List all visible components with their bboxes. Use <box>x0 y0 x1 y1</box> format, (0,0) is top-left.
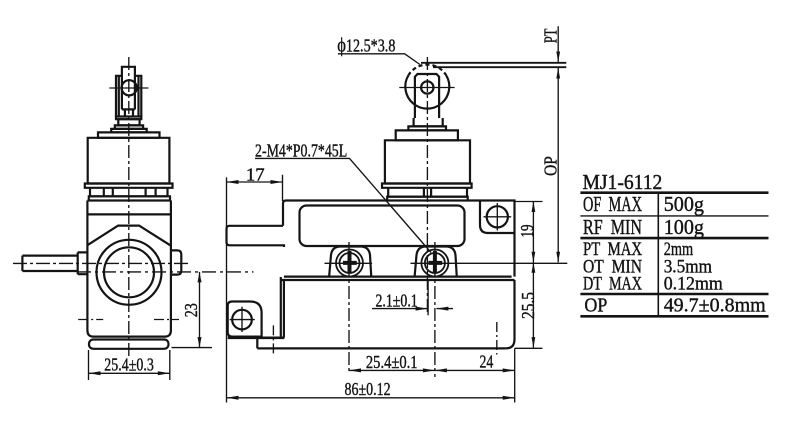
dim 25.5 bottom ext <box>515 347 543 349</box>
plunger center solid segment <box>427 280 429 315</box>
plunger cap <box>98 132 160 137</box>
base left edges <box>281 277 284 338</box>
dim 25.4 extension lines <box>89 350 170 380</box>
arrow 17 right <box>271 180 283 184</box>
roller circle dashed top <box>408 65 446 76</box>
arrow 25.4 left <box>349 368 361 372</box>
plunger step 3 <box>111 129 147 133</box>
boot flange <box>85 184 173 188</box>
screw right cross <box>428 251 442 273</box>
svg-text:2.1±0.1: 2.1±0.1 <box>376 291 418 311</box>
right boss <box>171 250 181 274</box>
screw right outer <box>421 250 448 277</box>
arrow 25.4 right <box>158 371 170 375</box>
pentagon face <box>88 226 170 246</box>
wire center line vertical middle view <box>426 57 428 315</box>
base plate under collar <box>89 196 170 200</box>
arrow PT up <box>556 68 560 79</box>
base top edge <box>281 279 515 281</box>
bottom insert <box>89 340 169 349</box>
circle horizontal center line <box>77 271 254 273</box>
screw housing right <box>415 247 457 276</box>
middle view dimensions <box>227 26 559 402</box>
arrow 25.4 left <box>89 371 101 375</box>
dim 19/25.5 line <box>532 202 534 348</box>
table line under OF <box>580 215 768 217</box>
base bottom right corner <box>506 280 515 348</box>
dim 25.4/24 line <box>349 369 515 371</box>
svg-text:2-M4*P0.7*45L: 2-M4*P0.7*45L <box>255 141 347 161</box>
pin circle <box>122 80 137 95</box>
base center marks <box>273 322 496 355</box>
terminal rod <box>22 256 77 271</box>
svg-text:OP: OP <box>584 294 607 316</box>
screw left inner <box>340 253 360 273</box>
plunger cap <box>396 130 458 140</box>
boot flange <box>382 184 472 188</box>
table line under DT <box>580 293 768 296</box>
dim 17 line <box>227 181 283 183</box>
label plate <box>300 206 465 247</box>
link below roller <box>125 109 133 116</box>
arrow 86 right <box>503 396 515 400</box>
ref line top 1 <box>421 62 566 64</box>
table line under RF <box>580 237 768 240</box>
svg-text:RF MIN: RF MIN <box>583 215 642 239</box>
switch body outline <box>87 201 170 337</box>
wire center line vertical left view <box>128 57 130 356</box>
svg-text:OF MAX: OF MAX <box>583 192 642 216</box>
dim 25.4 line <box>89 372 170 374</box>
svg-text:23: 23 <box>181 303 201 317</box>
arrow 25.5 down <box>532 337 536 348</box>
pin cross line <box>399 87 454 89</box>
svg-text:25.5: 25.5 <box>518 292 538 319</box>
base bottom step <box>257 339 505 348</box>
svg-text:25.4±0.1: 25.4±0.1 <box>366 352 418 372</box>
screw left cross <box>343 251 357 273</box>
plate under collar <box>387 197 468 201</box>
left lug <box>228 302 262 337</box>
lug hole cross <box>230 307 255 332</box>
arrow 24 left <box>435 368 447 372</box>
mounting hole cross <box>484 203 512 231</box>
arrow 86 left <box>227 396 239 400</box>
screw left outer <box>336 250 363 277</box>
svg-text:49.7±0.8mm: 49.7±0.8mm <box>664 294 766 316</box>
dim 19 ext <box>515 201 543 203</box>
svg-text:ϕ12.5*3.8: ϕ12.5*3.8 <box>337 35 395 57</box>
outer circle <box>97 240 162 305</box>
arrow 25.4 right <box>423 368 435 372</box>
roller circle solid part <box>405 76 449 109</box>
lug bottom thick line <box>228 336 285 339</box>
dim 23 extension bottom <box>172 347 213 349</box>
dim 23 line <box>199 272 201 348</box>
body bottom edge line <box>284 276 512 278</box>
screw housing left <box>329 247 371 276</box>
svg-text:17: 17 <box>246 165 265 185</box>
dim PT line <box>557 26 559 262</box>
arrow 25.5 up <box>532 262 536 273</box>
dim 24 right ext <box>514 349 516 403</box>
pin center line <box>109 87 148 89</box>
arrow 17 left <box>227 180 239 184</box>
mounting hole top right <box>487 206 508 227</box>
svg-text:PT: PT <box>541 28 561 43</box>
fork base band <box>116 117 141 120</box>
svg-text:100g: 100g <box>664 215 705 239</box>
table top line <box>580 191 768 194</box>
body top and right <box>283 201 515 277</box>
arrow 23 up <box>198 272 202 283</box>
plunger step 1 <box>118 119 139 125</box>
svg-text:OP: OP <box>540 156 560 176</box>
plunger step 2 <box>115 125 143 128</box>
leader M4 underline <box>255 158 431 252</box>
screw right inner <box>425 253 445 273</box>
pin circle <box>421 81 433 93</box>
svg-text:19: 19 <box>517 224 537 237</box>
body top band line <box>87 213 170 215</box>
dim 86 line <box>227 397 515 399</box>
left strip <box>227 226 285 247</box>
svg-text:86±0.12: 86±0.12 <box>345 379 391 399</box>
left boss <box>78 252 88 274</box>
table bottom line <box>580 315 768 318</box>
rod center line <box>13 262 188 264</box>
lug hole <box>232 310 252 330</box>
arrow 19 up <box>532 202 536 213</box>
clevis <box>415 74 439 118</box>
top-right lug boundary <box>480 201 515 234</box>
boot <box>385 140 470 183</box>
screw center lines <box>349 242 435 377</box>
terminal collar <box>90 188 168 197</box>
svg-text:24: 24 <box>480 352 494 372</box>
ref line top 2 <box>433 66 566 68</box>
inner circle <box>104 247 154 297</box>
screw horizontal center lines <box>325 262 568 264</box>
roller (side view) <box>122 67 135 110</box>
plunger step 2 <box>408 126 446 130</box>
side center marks <box>78 319 179 321</box>
dim 17 ext lines <box>227 175 283 403</box>
arrow 23 down <box>198 337 202 348</box>
svg-text:0.12mm: 0.12mm <box>664 274 723 295</box>
leader dia underline <box>338 54 420 65</box>
collar <box>388 188 467 197</box>
svg-text:MJ1-6112: MJ1-6112 <box>583 170 663 194</box>
lever fork left plate <box>116 76 122 117</box>
svg-text:25.4±0.3: 25.4±0.3 <box>104 355 154 375</box>
table divider <box>657 193 659 317</box>
dim 2.1 underline <box>372 308 453 310</box>
plunger step 1 <box>414 118 443 126</box>
left view dimensions <box>89 272 213 380</box>
arrow PT down <box>556 52 560 63</box>
svg-text:DT MAX: DT MAX <box>583 274 642 295</box>
arrow 2.1 right <box>416 307 428 311</box>
arrow 2.1 left <box>436 307 448 311</box>
svg-text:500g: 500g <box>664 192 705 216</box>
arrow OP down <box>556 252 560 263</box>
lever fork right plate <box>135 76 141 117</box>
arrow 19 down <box>532 252 536 263</box>
boot <box>88 138 170 184</box>
arrow 24 right <box>503 368 515 372</box>
